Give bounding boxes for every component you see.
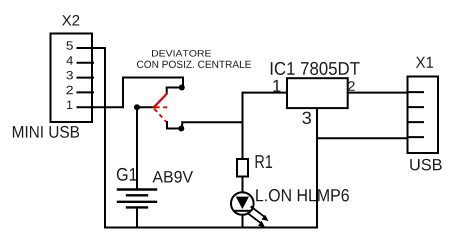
battery G1 plate short bottom bbox=[127, 206, 147, 208]
wire: ground rail bottom bbox=[105, 227, 317, 229]
label DEVIATORE bbox=[152, 50, 211, 57]
wire: IC1 pin 2 to X1 pin 1 bbox=[348, 92, 408, 94]
wire: LED to ground rail bbox=[242, 215, 244, 228]
X2 pin 3 bbox=[78, 77, 94, 79]
X2 pin number 5 bbox=[66, 41, 73, 49]
label IC1 7805DT bbox=[271, 62, 360, 75]
wire: node to switch common pivot bbox=[137, 106, 155, 108]
IC1 pin number 1 bbox=[273, 80, 280, 92]
switch S1 bottom throw contact dot bbox=[178, 126, 184, 132]
wire: switch bottom throw to IC input node bbox=[182, 122, 242, 128]
resistor R1 body bbox=[237, 159, 248, 177]
X2 pin number 1 bbox=[67, 101, 72, 109]
wire: X2 pin 5 to ground rail bbox=[93, 48, 105, 228]
X2 pin 2 bbox=[78, 91, 94, 93]
label CON POSIZ. CENTRALE bbox=[137, 61, 251, 68]
wire: battery plus up to node bbox=[136, 107, 138, 189]
LED light arrow 1 bbox=[251, 207, 268, 221]
switch S1 blade center position (red dashed) bbox=[156, 106, 171, 108]
wire: X2 pin 1 to switch top contact bbox=[93, 78, 183, 108]
X1 pin 3 bbox=[408, 121, 424, 123]
LED L.ON circle bbox=[231, 192, 254, 215]
switch S1 blade (closed position, red) bbox=[154, 94, 167, 108]
label MINI USB bbox=[13, 126, 79, 138]
wire: IC input vertical bbox=[242, 93, 244, 159]
label X2 bbox=[62, 15, 79, 26]
X2 pin number 4 bbox=[66, 56, 73, 64]
label L.ON HLMP6 bbox=[256, 189, 349, 202]
IC1 pin number 3 bbox=[302, 112, 311, 124]
battery G1 plate long bbox=[118, 201, 156, 203]
X2 pin number 2 bbox=[66, 86, 73, 94]
label AB9V bbox=[153, 171, 194, 183]
switch S1 top throw contact dot bbox=[179, 85, 185, 91]
LED triangle anode bbox=[236, 197, 249, 209]
label G1 bbox=[117, 168, 137, 181]
switch S1 bottom throw contact lead bbox=[167, 122, 181, 129]
wire: IC1 pin 3 ground vertical bbox=[316, 108, 318, 227]
X2 pin number 3 bbox=[66, 71, 73, 79]
X2 pin 1 bbox=[78, 106, 94, 108]
LED light arrow 2 bbox=[248, 214, 265, 228]
wire: ground to X1 pin 4 bbox=[317, 137, 408, 139]
connector X2 (MINI USB) body bbox=[51, 34, 93, 123]
label R1 bbox=[256, 155, 273, 168]
battery G1 plate short bbox=[127, 194, 147, 196]
wire: to IC1 pin 1 bbox=[243, 92, 288, 94]
switch S1 blade lower position (red dashed) bbox=[154, 109, 166, 122]
X2 pin 4 bbox=[78, 62, 94, 64]
switch S1 top throw contact lead bbox=[167, 88, 182, 94]
X1 pin 2 bbox=[408, 106, 424, 108]
connector X1 (USB) body bbox=[408, 77, 439, 154]
label USB right bbox=[410, 159, 441, 171]
X1 pin 4 bbox=[408, 136, 424, 138]
label X1 bbox=[416, 57, 433, 68]
LED cathode bar bbox=[236, 210, 250, 212]
wire: battery minus to ground rail bbox=[136, 207, 138, 227]
battery G1 plate long top bbox=[118, 188, 156, 190]
IC1 pin number 2 bbox=[348, 81, 355, 91]
X1 pin 1 bbox=[408, 91, 424, 93]
regulator IC1 body bbox=[287, 78, 348, 108]
wire: R1 to LED bbox=[242, 177, 244, 193]
X2 pin 5 bbox=[78, 47, 94, 49]
node junction dot at battery/switch bbox=[134, 104, 140, 110]
